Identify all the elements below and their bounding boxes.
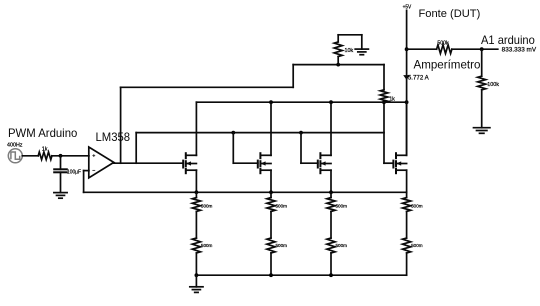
- resistor R2b 500m: [267, 238, 275, 253]
- svg-text:5.772 A: 5.772 A: [408, 76, 429, 82]
- svg-text:500m: 500m: [201, 243, 213, 249]
- resistor R4a 500m: [403, 192, 411, 211]
- wire gate lead M4: [384, 162, 393, 164]
- wire R1 to op-amp + input: [52, 155, 89, 157]
- wire mid column M1: [195, 212, 197, 239]
- svg-text:100µF: 100µF: [67, 169, 82, 175]
- svg-text:100k: 100k: [487, 82, 499, 88]
- node gate M3: [299, 131, 303, 135]
- wire column M1 to bottom rail: [195, 253, 197, 275]
- node gate M2: [231, 131, 235, 135]
- svg-text:833.333 mV: 833.333 mV: [502, 47, 537, 54]
- resistor R2 10k: [334, 35, 342, 65]
- ground below C1: [54, 193, 67, 199]
- node bottom rail M3: [329, 273, 333, 277]
- wire output riser to top rail: [120, 87, 122, 163]
- svg-text:A1 arduino: A1 arduino: [481, 33, 535, 47]
- wire riser 1k to gate M4 line: [383, 102, 385, 163]
- source V1 400Hz square-wave: [8, 149, 22, 163]
- node drain rail to ammeter: [405, 100, 409, 104]
- transistor M1 NMOS: [183, 102, 196, 192]
- node source rail x=331.0: [329, 190, 333, 194]
- svg-text:10k: 10k: [345, 48, 354, 54]
- svg-text:500k: 500k: [437, 41, 449, 47]
- wire gate rail: [136, 132, 384, 134]
- wire top rail A: [121, 86, 294, 88]
- wire gate riser M2: [232, 133, 234, 164]
- wire column M4 to bottom rail: [406, 253, 408, 275]
- wire column M3 to bottom rail: [330, 253, 332, 275]
- node A1: [480, 47, 484, 51]
- wire +5V to R 500k: [407, 48, 437, 50]
- wire mid column M2: [270, 212, 272, 239]
- node bottom rail M2: [269, 273, 273, 277]
- wire rail A to rail B riser: [292, 65, 294, 88]
- wire gate riser M3: [300, 133, 302, 164]
- wire R4 to A1 node: [452, 48, 498, 50]
- resistor R1a 500m: [192, 192, 200, 211]
- wire +5V supply line: [406, 10, 408, 154]
- wire inverting input riser down: [83, 171, 85, 193]
- op-amp U1 LM358: [89, 147, 114, 178]
- svg-text:500m: 500m: [336, 203, 348, 209]
- svg-text:LM358: LM358: [96, 130, 131, 144]
- wire top rail B: [293, 64, 384, 66]
- resistor R3 1k (gate drive): [380, 65, 388, 103]
- resistor R2a 500m: [267, 192, 275, 211]
- resistor R4 500k: [437, 45, 452, 54]
- svg-text:500m: 500m: [276, 243, 288, 249]
- wire source feedback rail: [84, 191, 407, 193]
- svg-text:1k: 1k: [42, 147, 48, 153]
- ammeter arrow: [403, 75, 410, 80]
- ground at 10k: [355, 35, 368, 55]
- wire gate lead M3: [301, 162, 318, 164]
- node 10k bottom: [336, 63, 340, 67]
- wire output riser to gate rail: [135, 133, 137, 164]
- wire bottom rail: [196, 274, 406, 276]
- ground below 100k: [474, 128, 490, 134]
- svg-text:500m: 500m: [201, 203, 213, 209]
- wire inverting input: [84, 170, 89, 172]
- svg-text:500m: 500m: [411, 203, 423, 209]
- node source rail x=271.0: [269, 190, 273, 194]
- resistor R5 100k: [478, 49, 486, 128]
- resistor R1 1k: [38, 152, 52, 160]
- node bottom rail M1: [195, 273, 199, 277]
- resistor R3a 500m: [327, 192, 335, 211]
- svg-text:Fonte (DUT): Fonte (DUT): [419, 8, 481, 20]
- svg-text:Amperímetro: Amperímetro: [414, 58, 481, 72]
- transistor M3 NMOS: [318, 102, 331, 192]
- node +5V to sense wire: [405, 47, 409, 51]
- node source rail x=196.4: [195, 190, 199, 194]
- ground at bottom rail: [190, 275, 203, 292]
- wire mid column M4: [406, 212, 408, 239]
- node 1k bottom on drain rail: [382, 100, 386, 104]
- transistor M2 NMOS: [258, 102, 271, 192]
- node drain M2: [269, 100, 273, 104]
- wire source to R1: [22, 155, 38, 157]
- transistor M4 NMOS: [393, 102, 406, 192]
- wire column M2 to bottom rail: [270, 253, 272, 275]
- svg-text:PWM Arduino: PWM Arduino: [8, 126, 78, 140]
- wire 10k top to ground: [338, 34, 362, 36]
- node junction C1: [59, 154, 63, 158]
- wire gate lead M2: [233, 162, 257, 164]
- wire mid column M3: [330, 212, 332, 239]
- svg-text:400Hz: 400Hz: [7, 142, 23, 148]
- svg-text:500m: 500m: [276, 203, 288, 209]
- resistor R4b 500m: [403, 238, 411, 253]
- capacitor C1 100uF: [54, 156, 67, 193]
- svg-text:500m: 500m: [336, 243, 348, 249]
- wire op-amp output to gate M1: [113, 162, 184, 164]
- resistor R3b 500m: [327, 238, 335, 253]
- wire drain rail: [196, 101, 406, 103]
- resistor R1b 500m: [192, 238, 200, 253]
- node drain M3: [329, 100, 333, 104]
- svg-text:500m: 500m: [411, 243, 423, 249]
